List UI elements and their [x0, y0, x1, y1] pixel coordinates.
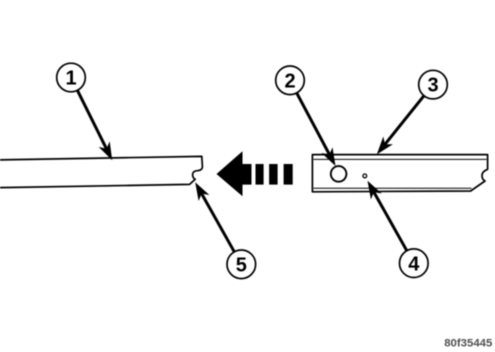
leader line 2: [297, 93, 330, 155]
callout circle 2: [276, 66, 305, 95]
svg-text:3: 3: [427, 75, 438, 97]
svg-text:4: 4: [408, 253, 420, 275]
leader line 1: [77, 90, 106, 148]
svg-text:80f35445: 80f35445: [444, 338, 493, 350]
strip 3 top inner edge line: [314, 158, 487, 160]
callout circle 5: [227, 250, 256, 279]
svg-text:1: 1: [65, 68, 76, 90]
hole 2 (large hole in strip): [331, 166, 347, 182]
strip 1 (left retaining strip): [0, 156, 202, 187]
strip 3 (right retaining strip): [312, 155, 487, 192]
callout circle 1: [57, 63, 86, 92]
hole 4 (small hole in strip): [363, 174, 367, 178]
leader line 3: [385, 96, 424, 145]
callout circle 4: [400, 249, 429, 278]
svg-text:5: 5: [236, 254, 247, 276]
leader line 4: [374, 192, 407, 251]
svg-text:2: 2: [284, 70, 295, 92]
callout circle 3: [419, 70, 448, 99]
direction arrow (thick dashed arrow pointing left): [217, 151, 252, 196]
leader line 5: [202, 194, 235, 252]
strip 3 bottom inner edge line: [314, 187, 472, 189]
